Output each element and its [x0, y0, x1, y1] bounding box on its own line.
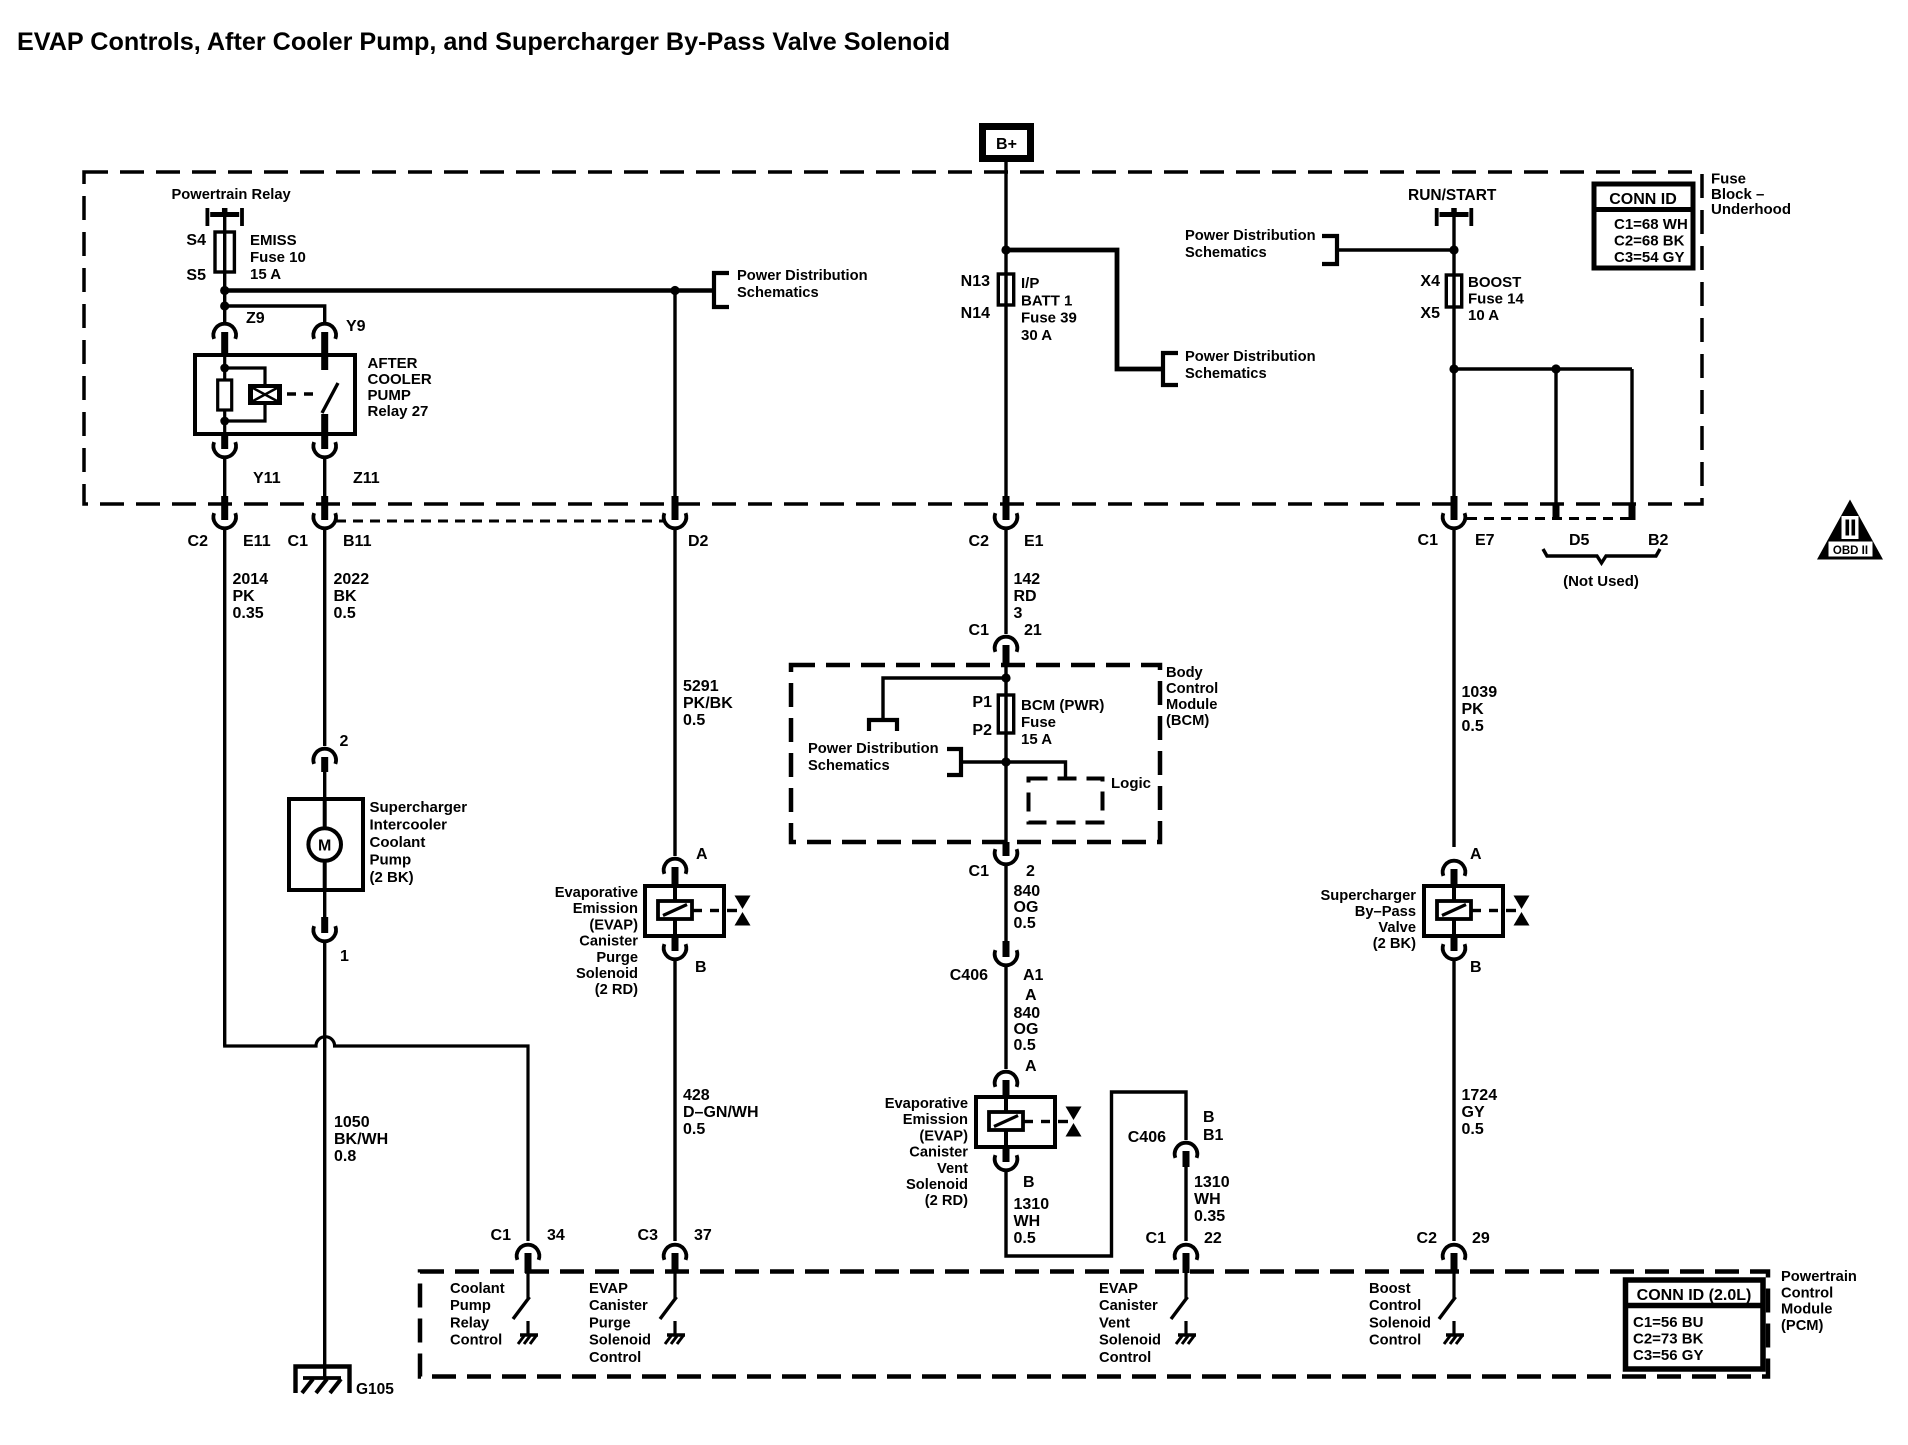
solenoid EVAP Canister Purge Solenoid — [645, 886, 751, 936]
svg-text:C1: C1 — [288, 533, 309, 550]
svg-text:BCM (PWR): BCM (PWR) — [1021, 697, 1104, 714]
wire label 840 OG 0.5 upper — [1014, 883, 1041, 932]
svg-text:Control: Control — [450, 1333, 502, 1349]
svg-text:C1: C1 — [969, 622, 990, 639]
wire X5 to fuse block edge — [1452, 307, 1455, 504]
connector C1 22 — [1175, 1245, 1198, 1273]
brace not used — [1543, 549, 1660, 563]
svg-text:Evaporative: Evaporative — [885, 1096, 968, 1112]
vent solenoid label — [885, 1096, 969, 1209]
svg-text:Coolant: Coolant — [370, 834, 426, 851]
svg-text:29: 29 — [1472, 1230, 1490, 1247]
wire to power distribution bracket 1 — [675, 288, 714, 293]
wire branch to D5 B2 — [1454, 367, 1632, 370]
wire N14 to fuse block edge — [1004, 305, 1007, 504]
svg-text:Y11: Y11 — [253, 470, 281, 487]
wire to logic box — [1006, 762, 1066, 778]
svg-text:0.5: 0.5 — [334, 605, 356, 622]
svg-text:Coolant: Coolant — [450, 1281, 505, 1297]
connector bypass valve pin A — [1443, 861, 1466, 886]
wire to I/P fuse — [1004, 250, 1007, 274]
EMISS fuse value label — [250, 232, 306, 283]
svg-text:Powertrain Relay: Powertrain Relay — [172, 187, 292, 203]
svg-text:Z9: Z9 — [246, 310, 265, 327]
svg-text:0.8: 0.8 — [334, 1148, 356, 1165]
svg-text:A: A — [696, 846, 708, 863]
wire 1050 BK/WH to ground — [323, 941, 326, 1378]
svg-text:Supercharger: Supercharger — [1320, 888, 1416, 904]
wire BCM fuse down — [1004, 733, 1007, 842]
svg-text:Powertrain: Powertrain — [1781, 1269, 1857, 1285]
wire bold feed to D2 branch — [225, 288, 675, 293]
junction D5 — [1551, 364, 1560, 373]
svg-text:Schematics: Schematics — [1185, 245, 1267, 261]
fuse BCM PWR 15A — [998, 695, 1013, 733]
svg-text:5291: 5291 — [683, 678, 719, 695]
svg-text:34: 34 — [547, 1227, 565, 1244]
wire 142 RD — [1004, 529, 1007, 634]
svg-text:0.5: 0.5 — [1462, 1121, 1484, 1138]
wire label 142 RD 3 — [1014, 571, 1041, 622]
off-page bracket power distribution 2 — [1322, 236, 1337, 264]
svg-text:C406: C406 — [1128, 1129, 1166, 1146]
stub D5 — [1553, 504, 1560, 520]
svg-text:Logic: Logic — [1111, 775, 1151, 792]
svg-text:OG: OG — [1014, 1021, 1039, 1038]
wire label 1310 WH 0.5 — [1014, 1196, 1050, 1247]
junction D2 branch — [670, 286, 679, 295]
svg-text:A: A — [1470, 846, 1482, 863]
svg-text:3: 3 — [1014, 605, 1023, 622]
off-page bracket power distribution 1 — [714, 273, 729, 307]
svg-text:2014: 2014 — [233, 571, 269, 588]
svg-text:EVAP: EVAP — [589, 1281, 628, 1297]
svg-text:30 A: 30 A — [1021, 327, 1052, 344]
switch coolant pump relay control driver — [513, 1273, 538, 1344]
connector C1 34 — [517, 1245, 540, 1273]
svg-text:0.5: 0.5 — [683, 1121, 705, 1138]
wire 840 OG upper — [1004, 864, 1007, 941]
relay switch blade — [321, 355, 338, 434]
junction relay coil branch — [220, 301, 229, 310]
connector C2 E1 — [995, 496, 1018, 528]
svg-text:CONN ID: CONN ID — [1609, 191, 1677, 208]
OBD II symbol — [1817, 500, 1883, 560]
svg-text:Canister: Canister — [909, 1145, 968, 1161]
solenoid EVAP Canister Vent Solenoid — [976, 1097, 1082, 1147]
svg-text:By–Pass: By–Pass — [1355, 904, 1416, 920]
svg-text:PK: PK — [1462, 701, 1485, 718]
svg-text:428: 428 — [683, 1087, 710, 1104]
svg-text:X5: X5 — [1420, 305, 1440, 322]
svg-text:10 A: 10 A — [1468, 307, 1499, 324]
wire 2022 BK — [323, 529, 326, 746]
svg-text:Control: Control — [1369, 1298, 1421, 1314]
junction BCM feed branch — [1001, 673, 1010, 682]
svg-text:B+: B+ — [996, 136, 1017, 153]
svg-text:C2: C2 — [188, 533, 209, 550]
wire bracket to BCM node — [961, 760, 1006, 763]
connector pump pin 2 — [313, 749, 336, 772]
wire into BCM — [1004, 665, 1007, 695]
svg-text:1039: 1039 — [1462, 684, 1498, 701]
wire feed to fuse EMISS — [223, 217, 226, 232]
svg-text:840: 840 — [1014, 1005, 1041, 1022]
wire 1310 WH jog to C406 B1 — [1006, 1092, 1186, 1256]
EVAP canister vent solenoid control label — [1099, 1281, 1161, 1366]
svg-text:OG: OG — [1014, 899, 1039, 916]
svg-text:C3: C3 — [638, 1227, 659, 1244]
svg-text:(PCM): (PCM) — [1781, 1318, 1824, 1334]
svg-text:(EVAP): (EVAP) — [919, 1128, 968, 1144]
relay K After Cooler Pump Relay 27 box — [195, 355, 355, 434]
wire RUN/START down — [1452, 217, 1455, 275]
svg-text:0.35: 0.35 — [1194, 1208, 1225, 1225]
svg-text:X4: X4 — [1420, 273, 1440, 290]
connector Z9 — [213, 324, 236, 355]
svg-text:Underhood: Underhood — [1711, 201, 1791, 218]
power distribution schematics label 3 — [1185, 349, 1316, 382]
off-page bracket power distribution 3 — [1163, 353, 1178, 385]
svg-text:RUN/START: RUN/START — [1408, 187, 1497, 204]
svg-text:(Not Used): (Not Used) — [1563, 573, 1639, 590]
svg-text:C1: C1 — [1418, 532, 1439, 549]
svg-text:A1: A1 — [1023, 967, 1044, 984]
svg-text:37: 37 — [694, 1227, 712, 1244]
svg-text:Evaporative: Evaporative — [555, 885, 638, 901]
svg-text:1310: 1310 — [1014, 1196, 1050, 1213]
PCM label — [1781, 1269, 1857, 1334]
svg-text:Boost: Boost — [1369, 1281, 1411, 1297]
svg-text:B11: B11 — [343, 533, 372, 550]
wire to D5 — [1554, 369, 1557, 504]
svg-text:Fuse 39: Fuse 39 — [1021, 310, 1077, 327]
svg-text:E1: E1 — [1024, 533, 1044, 550]
svg-text:Vent: Vent — [937, 1161, 968, 1177]
svg-text:Relay 27: Relay 27 — [368, 403, 429, 420]
svg-text:A: A — [1025, 987, 1037, 1004]
svg-text:C2=68 BK: C2=68 BK — [1614, 233, 1685, 250]
wire Y11 to fuse block edge — [223, 457, 226, 504]
wire label 428 D-GN/WH 0.5 — [683, 1087, 759, 1138]
svg-text:C2=73 BK: C2=73 BK — [1633, 1331, 1704, 1348]
svg-text:Schematics: Schematics — [1185, 366, 1267, 382]
svg-text:A: A — [1025, 1058, 1037, 1075]
svg-text:1: 1 — [340, 948, 349, 965]
wire 1310 WH 0.35 — [1184, 1167, 1187, 1241]
svg-text:P1: P1 — [972, 694, 992, 711]
svg-text:PK: PK — [233, 588, 256, 605]
relay coil crossed box — [248, 384, 282, 405]
svg-text:0.5: 0.5 — [683, 712, 705, 729]
off-page bracket power distribution 4 — [947, 749, 961, 775]
wire fuse S5 down — [223, 272, 226, 291]
svg-text:Canister: Canister — [579, 934, 638, 950]
svg-text:Fuse 14: Fuse 14 — [1468, 291, 1525, 308]
solenoid Supercharger By-Pass Valve — [1424, 886, 1530, 936]
svg-text:N14: N14 — [961, 305, 990, 322]
off-page staple BCM feed — [869, 720, 897, 731]
svg-text:EVAP Controls, After Cooler Pu: EVAP Controls, After Cooler Pump, and Su… — [17, 28, 950, 56]
connector Y11 — [213, 434, 236, 457]
fuse I/P BATT 1 Fuse 39 30A — [998, 274, 1013, 305]
powertrain control module PCM dashed box — [420, 1272, 1768, 1377]
svg-text:(2 RD): (2 RD) — [595, 982, 638, 998]
wire pump to pin 1 — [323, 890, 326, 918]
svg-text:(2 BK): (2 BK) — [1373, 936, 1416, 952]
svg-text:C3=56 GY: C3=56 GY — [1633, 1347, 1703, 1364]
wire BCM branch to off-page staple — [883, 678, 1006, 720]
svg-text:Fuse: Fuse — [1021, 714, 1056, 731]
EVAP canister purge solenoid control label — [589, 1281, 651, 1366]
wire 5291 PK/BK — [673, 529, 676, 856]
svg-text:C1=68 WH: C1=68 WH — [1614, 216, 1688, 233]
svg-text:Power Distribution: Power Distribution — [1185, 228, 1316, 244]
svg-text:Solenoid: Solenoid — [1099, 1333, 1161, 1349]
power distribution schematics label 4 — [808, 741, 939, 774]
svg-text:Control: Control — [589, 1350, 641, 1366]
svg-text:B1: B1 — [1203, 1127, 1224, 1144]
svg-text:2022: 2022 — [334, 571, 370, 588]
connector C2 29 — [1443, 1245, 1466, 1273]
BCM fuse value label — [1021, 697, 1104, 748]
svg-text:1310: 1310 — [1194, 1174, 1230, 1191]
I/P BATT fuse value label — [1021, 275, 1077, 344]
svg-text:PK/BK: PK/BK — [683, 695, 733, 712]
BOOST fuse value label — [1468, 274, 1525, 324]
svg-text:Pump: Pump — [370, 852, 412, 869]
svg-text:Module: Module — [1166, 697, 1217, 713]
body control module BCM dashed box — [791, 665, 1160, 842]
svg-text:Fuse 10: Fuse 10 — [250, 249, 306, 266]
wire down to Z9 — [223, 291, 226, 323]
svg-text:Valve: Valve — [1378, 920, 1416, 936]
svg-text:Canister: Canister — [1099, 1298, 1158, 1314]
svg-text:Purge: Purge — [596, 950, 638, 966]
connector C3 37 — [664, 1245, 687, 1273]
connector D2 — [664, 496, 687, 528]
svg-text:P2: P2 — [972, 722, 992, 739]
svg-text:BOOST: BOOST — [1468, 274, 1521, 291]
svg-text:B2: B2 — [1648, 532, 1669, 549]
junction BCM logic branch — [1001, 757, 1010, 766]
svg-text:D–GN/WH: D–GN/WH — [683, 1104, 759, 1121]
RUN/START feed symbol — [1437, 208, 1472, 226]
svg-text:Emission: Emission — [573, 901, 638, 917]
CONN ID table (PCM) — [1626, 1280, 1764, 1369]
svg-text:Pump: Pump — [450, 1298, 491, 1314]
svg-text:1724: 1724 — [1462, 1087, 1498, 1104]
connector C1 21 — [995, 637, 1018, 665]
svg-text:15 A: 15 A — [1021, 731, 1052, 748]
node B+ battery terminal — [983, 127, 1031, 159]
svg-text:(2 RD): (2 RD) — [925, 1193, 968, 1209]
svg-text:C3=54 GY: C3=54 GY — [1614, 249, 1684, 266]
wire power distribution 2 to RUN/START — [1337, 248, 1454, 251]
svg-text:Relay: Relay — [450, 1315, 490, 1331]
wire branch to Y9 — [225, 306, 325, 323]
svg-text:AFTER: AFTER — [368, 355, 418, 372]
wire B+ down to junction — [1004, 162, 1007, 250]
svg-text:(EVAP): (EVAP) — [589, 917, 638, 933]
relay resistor — [218, 380, 232, 410]
svg-text:S4: S4 — [186, 232, 206, 249]
svg-text:Solenoid: Solenoid — [589, 1333, 651, 1349]
connector pump pin 1 — [313, 917, 336, 941]
wire label 5291 PK/BK 0.5 — [683, 678, 733, 729]
fuse EMISS Fuse 10 15A — [215, 232, 234, 272]
wire corner and hop over pump wire — [225, 1037, 528, 1241]
connector C406 B1 — [1175, 1143, 1198, 1167]
connector bypass valve pin B — [1443, 936, 1466, 959]
svg-text:E7: E7 — [1475, 532, 1495, 549]
switch EVAP purge solenoid control driver — [660, 1273, 685, 1344]
connector Z11 — [313, 434, 336, 457]
connector C1 B11 — [313, 496, 336, 528]
svg-text:C2: C2 — [969, 533, 990, 550]
svg-text:C2: C2 — [1417, 1230, 1438, 1247]
svg-text:C406: C406 — [950, 967, 988, 984]
svg-text:G105: G105 — [356, 1381, 394, 1398]
svg-text:B: B — [1203, 1109, 1215, 1126]
svg-text:PUMP: PUMP — [368, 387, 411, 404]
svg-text:15 A: 15 A — [250, 266, 281, 283]
connector C2 E11 — [213, 496, 236, 528]
svg-text:2: 2 — [340, 733, 349, 750]
svg-text:21: 21 — [1024, 622, 1042, 639]
stub B2 — [1629, 504, 1636, 520]
svg-text:OBD II: OBD II — [1833, 545, 1868, 557]
wire label 1310 WH 0.35 — [1194, 1174, 1230, 1225]
svg-text:Solenoid: Solenoid — [906, 1177, 968, 1193]
svg-text:Solenoid: Solenoid — [1369, 1315, 1431, 1331]
connector C1 E7 — [1443, 496, 1466, 528]
power distribution schematics label 2 — [1185, 228, 1316, 261]
svg-text:E11: E11 — [243, 533, 271, 550]
svg-text:S5: S5 — [186, 267, 206, 284]
svg-text:B: B — [1470, 959, 1482, 976]
after cooler pump relay label — [368, 355, 432, 420]
wire 428 D-GN/WH — [673, 959, 676, 1241]
wire label 1039 PK 0.5 — [1462, 684, 1498, 735]
svg-text:Control: Control — [1781, 1285, 1833, 1301]
svg-text:M: M — [318, 838, 331, 855]
svg-text:Purge: Purge — [589, 1315, 631, 1331]
svg-text:Control: Control — [1166, 681, 1218, 697]
wire label 840 OG 0.5 lower — [1014, 1005, 1041, 1054]
connector vent solenoid pin B — [995, 1147, 1018, 1170]
logic box (BCM) — [1029, 779, 1103, 823]
svg-text:Emission: Emission — [903, 1112, 968, 1128]
switch boost control solenoid driver — [1439, 1273, 1464, 1344]
svg-text:EVAP: EVAP — [1099, 1281, 1138, 1297]
svg-text:Power Distribution: Power Distribution — [1185, 349, 1316, 365]
fuse BOOST Fuse 14 10A — [1446, 275, 1461, 307]
svg-text:Control: Control — [1099, 1350, 1151, 1366]
bypass valve label — [1320, 888, 1416, 952]
svg-text:(BCM): (BCM) — [1166, 713, 1209, 729]
boost control solenoid control label — [1369, 1281, 1431, 1349]
svg-text:0.35: 0.35 — [233, 605, 264, 622]
connector C406 A1 — [995, 941, 1018, 965]
wire 840 OG lower — [1004, 965, 1007, 1069]
svg-text:GY: GY — [1462, 1104, 1485, 1121]
wire 1724 GY — [1452, 959, 1455, 1241]
svg-text:C1=56 BU: C1=56 BU — [1633, 1314, 1703, 1331]
junction B+ feed — [1001, 245, 1010, 254]
wire bold feed to power distribution 3 — [1006, 250, 1163, 369]
svg-text:(2 BK): (2 BK) — [370, 869, 414, 886]
relay mechanical dashed link — [287, 392, 318, 395]
svg-text:CONN ID (2.0L): CONN ID (2.0L) — [1637, 1287, 1752, 1304]
svg-text:C1: C1 — [969, 863, 990, 880]
svg-text:840: 840 — [1014, 883, 1041, 900]
svg-text:Power Distribution: Power Distribution — [808, 741, 939, 757]
svg-text:Body: Body — [1166, 665, 1204, 681]
wire 1039 PK — [1452, 529, 1455, 847]
wire label 2022 BK 0.5 — [334, 571, 370, 622]
svg-text:C1: C1 — [1146, 1230, 1167, 1247]
svg-text:BK: BK — [334, 588, 358, 605]
svg-text:B: B — [695, 959, 707, 976]
svg-text:COOLER: COOLER — [368, 371, 432, 388]
svg-text:1050: 1050 — [334, 1114, 370, 1131]
svg-text:I/P: I/P — [1021, 275, 1039, 292]
wire label 1050 BK/WH 0.8 — [334, 1114, 388, 1165]
svg-text:BK/WH: BK/WH — [334, 1131, 388, 1148]
svg-text:Control: Control — [1369, 1333, 1421, 1349]
svg-text:142: 142 — [1014, 571, 1041, 588]
wire label 2014 PK 0.35 — [233, 571, 269, 622]
junction RUN/START feed — [1449, 245, 1458, 254]
svg-text:EMISS: EMISS — [250, 232, 297, 249]
svg-text:0.5: 0.5 — [1014, 1037, 1036, 1054]
svg-text:WH: WH — [1014, 1213, 1041, 1230]
svg-text:0.5: 0.5 — [1462, 718, 1484, 735]
svg-text:Schematics: Schematics — [808, 758, 890, 774]
connector purge solenoid pin A — [664, 859, 687, 886]
switch EVAP vent solenoid control driver — [1171, 1273, 1196, 1344]
connector vent solenoid pin A — [995, 1072, 1018, 1097]
svg-text:Vent: Vent — [1099, 1315, 1130, 1331]
svg-text:C1: C1 — [491, 1227, 512, 1244]
svg-text:D2: D2 — [688, 533, 709, 550]
svg-text:Z11: Z11 — [353, 470, 380, 487]
wire D2 branch down — [673, 291, 676, 505]
connector C1 2 — [995, 842, 1018, 864]
svg-text:Supercharger: Supercharger — [370, 799, 468, 816]
dashed in-line connector line E7 to B2 — [1467, 517, 1629, 520]
svg-text:Intercooler: Intercooler — [370, 817, 448, 834]
svg-text:RD: RD — [1014, 588, 1037, 605]
svg-text:WH: WH — [1194, 1191, 1221, 1208]
wire label 1724 GY 0.5 — [1462, 1087, 1498, 1138]
svg-text:Canister: Canister — [589, 1298, 648, 1314]
purge solenoid label — [555, 885, 639, 998]
svg-text:Solenoid: Solenoid — [576, 966, 638, 982]
svg-text:BATT 1: BATT 1 — [1021, 292, 1072, 309]
connector Y9 — [313, 324, 336, 355]
svg-text:Module: Module — [1781, 1302, 1832, 1318]
svg-text:B: B — [1023, 1174, 1035, 1191]
svg-text:Schematics: Schematics — [737, 285, 819, 301]
wire to B2 — [1630, 369, 1633, 504]
connector purge solenoid pin B — [664, 936, 687, 959]
junction D5/B2 branch — [1449, 364, 1458, 373]
svg-text:0.5: 0.5 — [1014, 1230, 1036, 1247]
wire Z11 to fuse block edge — [323, 457, 326, 504]
svg-text:22: 22 — [1204, 1230, 1222, 1247]
